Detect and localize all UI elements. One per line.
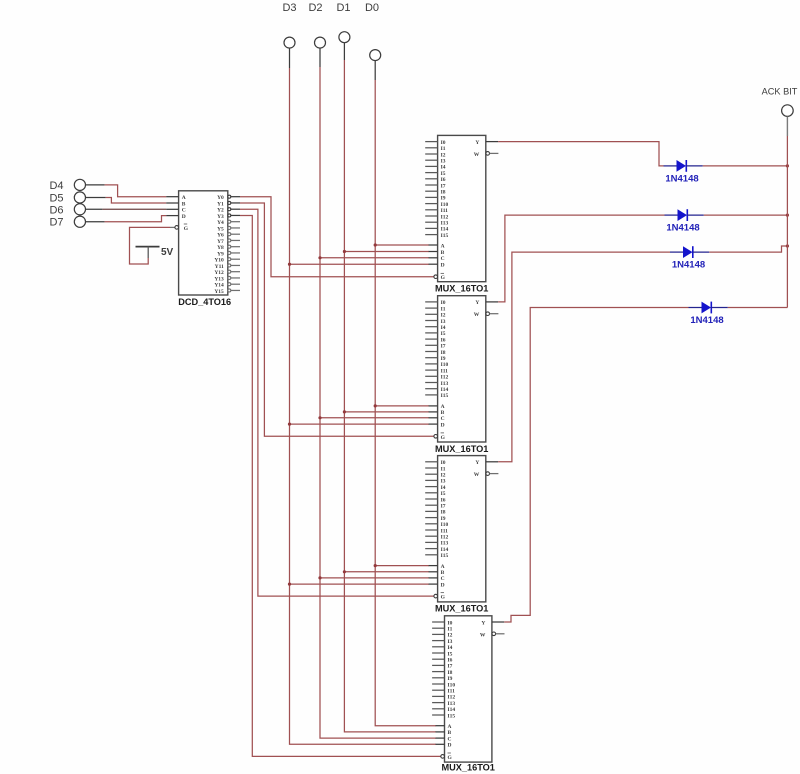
svg-text:I2: I2	[448, 633, 453, 639]
wire D0 to MUX3.A	[375, 565, 429, 567]
wire D1 vertical bus	[344, 60, 436, 732]
pin MUX1.C	[429, 256, 445, 262]
svg-text:I8: I8	[441, 350, 446, 356]
svg-text:I3: I3	[448, 639, 453, 645]
pin MUX4.I9 stub	[432, 676, 453, 682]
svg-text:D3: D3	[282, 2, 296, 14]
svg-text:I5: I5	[441, 171, 446, 177]
svg-text:B: B	[448, 730, 452, 736]
terminal ACK BIT	[762, 87, 798, 137]
terminal D0	[365, 2, 381, 80]
pin MUX1.A	[429, 243, 445, 249]
wire MUX3.Y to diode D3	[498, 252, 670, 462]
svg-text:I2: I2	[441, 313, 446, 319]
junction D3-MUX2.D	[288, 423, 291, 426]
pin DCD.Y6	[217, 233, 240, 239]
svg-text:I0: I0	[441, 300, 446, 306]
junction D0-MUX1.A	[374, 243, 377, 246]
svg-text:D: D	[441, 582, 445, 588]
svg-text:G: G	[441, 435, 446, 441]
wire DCD.Y1 to MUX2.~G	[240, 203, 434, 436]
junction D1-MUX2.B	[343, 410, 346, 413]
svg-text:G: G	[441, 275, 446, 281]
svg-text:Y10: Y10	[214, 258, 224, 264]
pin MUX1.I12 stub	[425, 214, 448, 220]
pin MUX1.~G enable bubble	[434, 273, 446, 281]
pin MUX3.I0 stub	[425, 460, 446, 466]
pin DCD.A	[166, 195, 186, 201]
svg-text:Y15: Y15	[214, 289, 224, 295]
pin MUX1.Y	[475, 140, 498, 146]
pin MUX4.I11 stub	[432, 689, 455, 695]
pin MUX4.I5 stub	[432, 651, 453, 657]
pin MUX2.I9 stub	[425, 356, 446, 362]
wire ACK rail vertical	[786, 136, 788, 308]
pin MUX4.I8 stub	[432, 670, 453, 676]
pin MUX3.B	[429, 570, 445, 576]
svg-text:1N4148: 1N4148	[666, 223, 699, 234]
svg-text:Y0: Y0	[217, 195, 224, 201]
svg-text:D: D	[182, 214, 186, 220]
svg-text:I15: I15	[448, 713, 456, 719]
pin DCD.Y13	[214, 276, 240, 282]
pin MUX3.D	[429, 582, 445, 588]
wire D0 to MUX1.A	[375, 244, 429, 246]
svg-text:I12: I12	[441, 535, 449, 541]
svg-text:I0: I0	[448, 620, 453, 626]
svg-text:I5: I5	[441, 331, 446, 337]
svg-text:G: G	[448, 755, 453, 761]
svg-text:B: B	[441, 570, 445, 576]
pin MUX1.I9 stub	[425, 196, 446, 202]
svg-text:D1: D1	[336, 2, 350, 14]
svg-text:Y1: Y1	[217, 201, 224, 207]
svg-text:I7: I7	[441, 504, 446, 510]
svg-text:C: C	[441, 256, 445, 262]
svg-text:I8: I8	[441, 510, 446, 516]
pin MUX1.W stub	[474, 152, 499, 158]
svg-text:C: C	[182, 208, 186, 214]
pin MUX2.I8 stub	[425, 350, 446, 356]
wire D3 vertical bus	[290, 68, 436, 744]
pin MUX3.I1 stub	[425, 466, 446, 472]
svg-text:I15: I15	[441, 553, 449, 559]
power 5V VCC	[136, 247, 174, 258]
pin MUX4.W stub	[480, 632, 505, 638]
pin MUX1.I13 stub	[425, 221, 448, 227]
wire MUX4.Y to diode D4	[504, 308, 688, 623]
pin MUX4.I7 stub	[432, 664, 453, 670]
svg-text:I11: I11	[441, 528, 449, 534]
multiplexer U5 MUX_16TO1	[441, 616, 494, 773]
svg-text:D: D	[441, 263, 445, 269]
svg-text:Y: Y	[481, 620, 485, 626]
pin DCD.Y3	[217, 214, 240, 220]
svg-text:I6: I6	[441, 497, 446, 503]
wire D3 to MUX3.D	[290, 583, 430, 585]
svg-text:I8: I8	[448, 670, 453, 676]
svg-text:W: W	[474, 152, 480, 158]
junction D3-rail	[786, 244, 789, 247]
pin DCD.C	[166, 208, 186, 214]
wire 5V to DCD ~G	[130, 227, 176, 264]
pin MUX3.I5 stub	[425, 491, 446, 497]
pin DCD.Y7	[217, 239, 240, 245]
svg-text:MUX_16TO1: MUX_16TO1	[435, 444, 488, 454]
pin MUX1.B	[429, 250, 445, 256]
pin MUX1.I8 stub	[425, 190, 446, 196]
junction D3-MUX1.D	[288, 263, 291, 266]
pin MUX3.I14 stub	[425, 547, 448, 553]
svg-text:D2: D2	[308, 2, 322, 14]
wire D7 to DCD.D	[86, 216, 167, 222]
svg-text:I5: I5	[448, 651, 453, 657]
svg-text:Y: Y	[475, 460, 479, 466]
pin DCD.Y9	[217, 251, 240, 257]
pin DCD.Y5	[217, 226, 240, 232]
svg-text:I14: I14	[448, 707, 456, 713]
pin MUX4.I10 stub	[432, 682, 455, 688]
pin MUX4.I4 stub	[432, 645, 453, 651]
svg-text:Y: Y	[475, 140, 479, 146]
junction D0-MUX3.A	[374, 564, 377, 567]
pin MUX3.I3 stub	[425, 479, 446, 485]
junction D0-MUX2.A	[374, 404, 377, 407]
diode D2 1N4148	[665, 209, 704, 233]
svg-text:1N4148: 1N4148	[665, 173, 698, 184]
svg-text:MUX_16TO1: MUX_16TO1	[441, 763, 494, 773]
wire MUX1.Y to diode D1	[498, 142, 663, 166]
wire diode D2 to ACK rail	[704, 214, 788, 216]
svg-text:B: B	[441, 250, 445, 256]
pin MUX3.I8 stub	[425, 510, 446, 516]
pin MUX2.I2 stub	[425, 313, 446, 319]
pin MUX4.I12 stub	[432, 695, 455, 701]
junction D3-MUX3.D	[288, 583, 291, 586]
pin MUX2.Y	[475, 300, 498, 306]
svg-text:Y: Y	[475, 300, 479, 306]
svg-text:I13: I13	[441, 381, 449, 387]
svg-text:I10: I10	[448, 682, 456, 688]
svg-text:G: G	[441, 595, 446, 601]
wire MUX2.Y to diode D2	[498, 215, 664, 302]
wire diode D3 to ACK rail (jog)	[709, 246, 787, 252]
svg-text:I4: I4	[448, 645, 453, 651]
pin MUX1.I0 stub	[425, 140, 446, 146]
pin MUX4.I3 stub	[432, 639, 453, 645]
terminal D2	[308, 2, 325, 67]
svg-text:I3: I3	[441, 319, 446, 325]
pin MUX1.I4 stub	[425, 165, 446, 171]
pin MUX1.I5 stub	[425, 171, 446, 177]
pin MUX4.C	[436, 736, 452, 742]
pin MUX3.I9 stub	[425, 516, 446, 522]
junction D1-MUX3.B	[343, 570, 346, 573]
pin MUX2.I3 stub	[425, 319, 446, 325]
pin MUX4.I15 stub	[432, 713, 455, 719]
pin MUX4.Y	[481, 620, 504, 626]
wire D2 to MUX3.C	[320, 577, 429, 579]
wire DCD.Y2 to MUX3.~G	[240, 209, 434, 596]
pin MUX4.~G enable bubble	[441, 753, 453, 761]
svg-text:D4: D4	[49, 180, 63, 192]
pin MUX3.C	[429, 576, 445, 582]
pin DCD.Y15	[214, 289, 240, 295]
terminal D1	[336, 2, 350, 60]
pin MUX2.I1 stub	[425, 306, 446, 312]
diode D1 1N4148	[664, 160, 703, 184]
wire D3 to MUX2.D	[290, 423, 430, 425]
pin MUX3.I6 stub	[425, 497, 446, 503]
pin MUX2.I6 stub	[425, 337, 446, 343]
svg-text:D5: D5	[49, 193, 63, 205]
diode D3 1N4148	[670, 246, 709, 270]
pin DCD.Y0	[217, 195, 240, 201]
svg-text:C: C	[441, 416, 445, 422]
pin MUX2.I13 stub	[425, 381, 448, 387]
pin MUX2.I5 stub	[425, 331, 446, 337]
pin MUX4.I14 stub	[432, 707, 455, 713]
svg-text:Y11: Y11	[215, 264, 224, 270]
pin MUX1.I7 stub	[425, 183, 446, 189]
decoder U1 DCD_4TO16	[178, 191, 231, 307]
junction D1-MUX1.B	[343, 250, 346, 253]
terminal D7	[49, 216, 85, 229]
terminal D5	[49, 192, 85, 205]
svg-text:MUX_16TO1: MUX_16TO1	[435, 284, 488, 294]
pin MUX1.I2 stub	[425, 152, 446, 158]
junction D1-rail	[786, 164, 789, 167]
wire diode D4 to ACK rail	[728, 307, 788, 309]
svg-text:I6: I6	[441, 337, 446, 343]
svg-text:C: C	[441, 576, 445, 582]
svg-text:I1: I1	[441, 146, 446, 152]
svg-text:D: D	[441, 422, 445, 428]
pin MUX1.I6 stub	[425, 177, 446, 183]
svg-text:I8: I8	[441, 190, 446, 196]
svg-text:I14: I14	[441, 227, 449, 233]
junction D2-MUX3.C	[318, 576, 321, 579]
pin MUX4.I6 stub	[432, 658, 453, 664]
svg-text:MUX_16TO1: MUX_16TO1	[435, 604, 488, 614]
svg-text:Y3: Y3	[217, 214, 224, 220]
pin MUX3.A	[429, 564, 445, 570]
wire D1 to MUX3.B	[344, 571, 429, 573]
svg-text:I9: I9	[448, 676, 453, 682]
terminal D6	[49, 204, 85, 217]
svg-text:I2: I2	[441, 152, 446, 158]
wire D4 to DCD.A	[86, 185, 167, 197]
multiplexer U4 MUX_16TO1	[435, 456, 488, 614]
svg-text:I7: I7	[441, 344, 446, 350]
pin DCD.Y1	[217, 201, 240, 207]
svg-text:Y8: Y8	[217, 245, 224, 251]
svg-text:Y7: Y7	[217, 239, 224, 245]
wire DCD.Y0 to MUX1.~G	[240, 197, 434, 277]
pin MUX2.I0 stub	[425, 300, 446, 306]
pin DCD.Y12	[214, 270, 240, 276]
pin MUX4.I0 stub	[432, 620, 453, 626]
pin DCD.Y14	[214, 283, 240, 289]
svg-text:C: C	[448, 736, 452, 742]
svg-text:W: W	[480, 632, 486, 638]
svg-text:A: A	[448, 724, 452, 730]
svg-text:DCD_4TO16: DCD_4TO16	[178, 297, 231, 307]
pin MUX4.B	[436, 730, 452, 736]
pin MUX4.A	[436, 724, 452, 730]
pin MUX3.I10 stub	[425, 522, 448, 528]
wire D6 to DCD.C	[86, 208, 167, 210]
pin DCD.Y4	[217, 220, 240, 226]
pin MUX2.I10 stub	[425, 362, 448, 368]
svg-text:I10: I10	[441, 362, 449, 368]
svg-text:I9: I9	[441, 356, 446, 362]
svg-text:I2: I2	[441, 473, 446, 479]
svg-text:ACK BIT: ACK BIT	[762, 87, 798, 97]
multiplexer U2 MUX_16TO1	[435, 135, 488, 293]
svg-text:I3: I3	[441, 159, 446, 165]
diode D4 1N4148	[689, 302, 728, 326]
svg-text:I13: I13	[441, 221, 449, 227]
svg-text:I15: I15	[441, 233, 449, 239]
pin MUX2.I15 stub	[425, 393, 448, 399]
wire D0 to MUX2.A	[375, 405, 429, 407]
svg-text:W: W	[474, 312, 480, 318]
pin MUX4.I13 stub	[432, 701, 455, 707]
svg-text:1N4148: 1N4148	[690, 315, 723, 326]
wire D2 to MUX1.C	[320, 257, 429, 259]
pin MUX2.D	[429, 422, 445, 428]
wire D1 to MUX2.B	[344, 411, 429, 413]
svg-text:A: A	[441, 564, 445, 570]
svg-text:A: A	[441, 243, 445, 249]
pin MUX3.W stub	[474, 472, 499, 478]
wire DCD.Y3 to MUX4.~G	[240, 215, 441, 756]
svg-text:I14: I14	[441, 387, 449, 393]
svg-text:I7: I7	[441, 183, 446, 189]
pin MUX4.I1 stub	[432, 627, 453, 633]
svg-text:I9: I9	[441, 516, 446, 522]
pin MUX1.I1 stub	[425, 146, 446, 152]
svg-text:I4: I4	[441, 325, 446, 331]
wire D3 to MUX1.D	[290, 263, 430, 265]
pin MUX2.C	[429, 416, 445, 422]
svg-text:Y9: Y9	[217, 251, 224, 257]
svg-text:D7: D7	[49, 217, 63, 229]
svg-text:A: A	[182, 195, 186, 201]
pin MUX3.Y	[475, 460, 498, 466]
wire D5 to DCD.B	[86, 198, 167, 204]
svg-text:W: W	[474, 472, 480, 478]
svg-text:I14: I14	[441, 547, 449, 553]
pin MUX3.~G enable bubble	[434, 593, 446, 601]
svg-text:I12: I12	[441, 375, 449, 381]
svg-text:Y5: Y5	[217, 226, 224, 232]
svg-text:Y14: Y14	[214, 283, 224, 289]
wire D2 vertical bus	[320, 67, 436, 738]
wire D1 to MUX1.B	[344, 251, 429, 253]
pin MUX3.I15 stub	[425, 553, 448, 559]
pin DCD.B	[166, 201, 186, 207]
pin DCD.Y11	[215, 264, 240, 270]
pin MUX4.I2 stub	[432, 633, 453, 639]
pin DCD.Y8	[217, 245, 240, 251]
pin DCD.Y10	[214, 258, 240, 264]
svg-text:G: G	[184, 226, 189, 232]
junction D2-MUX1.C	[318, 256, 321, 259]
svg-text:Y12: Y12	[214, 270, 224, 276]
svg-text:I0: I0	[441, 140, 446, 146]
wire diode D1 to ACK rail	[703, 165, 788, 167]
wire D0 vertical bus	[375, 80, 436, 726]
pin MUX2.A	[429, 404, 445, 410]
pin MUX2.I14 stub	[425, 387, 448, 393]
pin DCD.D	[166, 214, 186, 220]
svg-text:D0: D0	[365, 2, 379, 14]
pin MUX2.B	[429, 410, 445, 416]
pin MUX3.I13 stub	[425, 541, 448, 547]
pin MUX3.I2 stub	[425, 473, 446, 479]
svg-text:Y4: Y4	[217, 220, 224, 226]
svg-text:I11: I11	[448, 689, 456, 695]
pin MUX1.I15 stub	[425, 233, 448, 239]
svg-text:I4: I4	[441, 485, 446, 491]
svg-text:I13: I13	[448, 701, 456, 707]
svg-text:I10: I10	[441, 522, 449, 528]
terminal D3	[282, 2, 296, 68]
multiplexer U3 MUX_16TO1	[435, 296, 488, 454]
svg-text:I9: I9	[441, 196, 446, 202]
svg-text:1N4148: 1N4148	[672, 260, 705, 271]
svg-text:I10: I10	[441, 202, 449, 208]
pin MUX2.W stub	[474, 312, 499, 318]
pin MUX2.I12 stub	[425, 375, 448, 381]
pin MUX3.I11 stub	[425, 528, 448, 534]
pin MUX1.I14 stub	[425, 227, 448, 233]
svg-text:I1: I1	[441, 306, 446, 312]
pin MUX2.I11 stub	[425, 368, 448, 374]
pin MUX2.I4 stub	[425, 325, 446, 331]
svg-text:B: B	[182, 201, 186, 207]
pin DCD.Y2	[217, 208, 240, 214]
svg-text:I5: I5	[441, 491, 446, 497]
pin MUX2.I7 stub	[425, 344, 446, 350]
svg-text:I4: I4	[441, 165, 446, 171]
pin MUX3.I4 stub	[425, 485, 446, 491]
svg-text:D6: D6	[49, 204, 63, 216]
svg-text:I12: I12	[448, 695, 456, 701]
svg-text:Y13: Y13	[214, 276, 224, 282]
svg-text:5V: 5V	[161, 247, 174, 258]
svg-text:I12: I12	[441, 214, 449, 220]
terminal D4	[49, 179, 85, 192]
svg-text:I15: I15	[441, 393, 449, 399]
svg-text:I1: I1	[448, 627, 453, 633]
svg-text:I11: I11	[441, 368, 449, 374]
pin DCD.~G enable bubble	[175, 224, 189, 232]
pin MUX3.I12 stub	[425, 535, 448, 541]
svg-text:I0: I0	[441, 460, 446, 466]
pin MUX1.D	[429, 263, 445, 269]
junction D2-rail	[786, 214, 789, 217]
svg-text:I1: I1	[441, 466, 446, 472]
junction D2-MUX2.C	[318, 416, 321, 419]
wire D2 to MUX2.C	[320, 417, 429, 419]
pin MUX1.I10 stub	[425, 202, 448, 208]
pin MUX3.I7 stub	[425, 504, 446, 510]
svg-text:Y6: Y6	[217, 233, 224, 239]
svg-text:I7: I7	[448, 664, 453, 670]
